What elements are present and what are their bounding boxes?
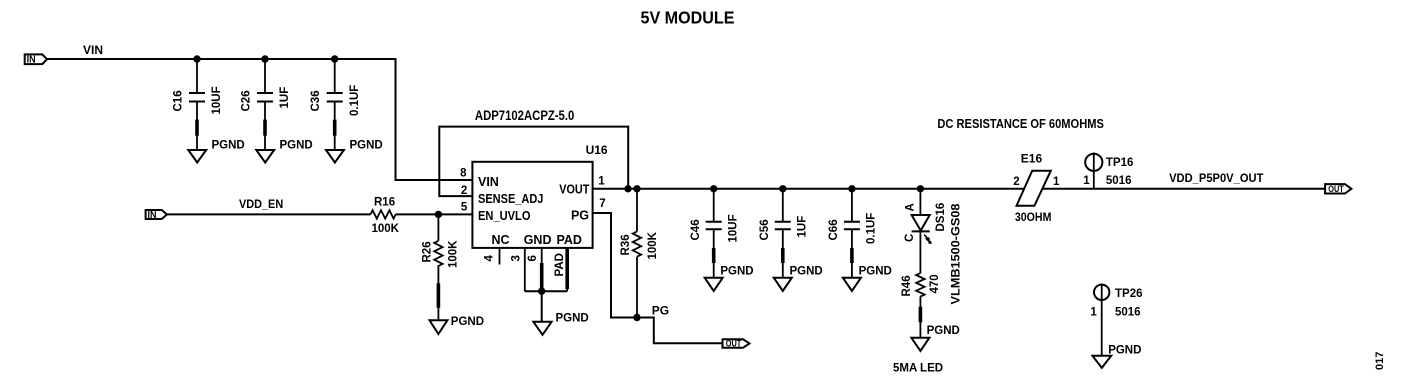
svg-text:1: 1 [1083, 175, 1090, 187]
ground PGND C16 [188, 140, 244, 163]
svg-text:PGND: PGND [1108, 345, 1141, 357]
svg-text:PG: PG [652, 304, 669, 318]
svg-text:5V MODULE: 5V MODULE [641, 8, 735, 28]
svg-text:5MA LED: 5MA LED [893, 363, 943, 375]
test point TP26 [1090, 284, 1142, 356]
capacitor C36 [310, 59, 361, 150]
svg-text:100K: 100K [372, 223, 400, 235]
svg-text:TP16: TP16 [1106, 157, 1134, 169]
svg-text:7: 7 [599, 198, 605, 210]
wire GND/PAD join [525, 291, 567, 322]
svg-text:IN: IN [27, 55, 36, 66]
svg-text:NC: NC [492, 233, 510, 247]
ground PGND C26 [256, 140, 312, 163]
svg-text:C56: C56 [759, 219, 771, 240]
svg-text:VOUT: VOUT [559, 182, 589, 196]
capacitor C56 [759, 189, 809, 278]
svg-text:10UF: 10UF [728, 214, 740, 242]
svg-text:017: 017 [1374, 352, 1386, 370]
svg-text:8: 8 [460, 167, 467, 179]
node VIN-C26 [261, 55, 268, 62]
svg-text:6: 6 [527, 255, 539, 261]
ground PGND C66 [843, 266, 892, 292]
connector OUT (VDD_P5P0V_OUT) [1325, 184, 1351, 194]
capacitor C16 [173, 59, 224, 150]
wire VIN rail [47, 59, 472, 180]
pin 6 stub (GND) [527, 248, 542, 291]
node VIN-C36 [331, 55, 338, 62]
svg-text:C16: C16 [173, 90, 185, 111]
node VOUT-C66 [848, 185, 855, 192]
svg-text:C36: C36 [310, 90, 322, 111]
wire PG route from pin7 [593, 213, 637, 318]
svg-text:R16: R16 [374, 197, 395, 209]
svg-text:DC RESISTANCE OF 60MOHMS: DC RESISTANCE OF 60MOHMS [937, 116, 1104, 131]
connector IN (VIN) [25, 54, 47, 65]
connector OUT (PG) [723, 338, 750, 348]
ground PGND U16 [533, 313, 588, 335]
ground PGND R26 [430, 316, 485, 334]
svg-text:VDD_P5P0V_OUT: VDD_P5P0V_OUT [1169, 171, 1264, 185]
svg-text:C66: C66 [828, 219, 840, 240]
resistor R16 [371, 197, 400, 236]
ground PGND TP26 [1093, 345, 1142, 368]
node VOUT-loop [624, 185, 631, 192]
svg-text:PGND: PGND [280, 140, 313, 152]
svg-text:4: 4 [484, 255, 496, 262]
svg-text:1: 1 [598, 175, 605, 187]
svg-text:VLMB1500-GS08: VLMB1500-GS08 [951, 203, 963, 305]
wire SENSE_ADJ to VOUT loop [439, 127, 628, 197]
svg-text:3: 3 [511, 255, 523, 261]
svg-text:PGND: PGND [350, 140, 383, 152]
svg-text:PAD: PAD [557, 233, 582, 247]
svg-text:R36: R36 [620, 234, 632, 255]
svg-text:2: 2 [1013, 176, 1019, 188]
svg-text:OUT: OUT [726, 338, 742, 348]
node VOUT-DS16 [917, 185, 924, 192]
svg-text:1: 1 [1090, 307, 1097, 319]
svg-text:5016: 5016 [1106, 175, 1132, 187]
pin PAD stub [554, 248, 567, 291]
node GND-PAD [538, 288, 545, 295]
node PG [633, 314, 640, 321]
ground PGND DS16 [911, 325, 959, 351]
LED DS16 [904, 189, 963, 305]
capacitor C46 [690, 189, 740, 278]
svg-text:SENSE_ADJ: SENSE_ADJ [478, 192, 543, 206]
svg-text:DS16: DS16 [935, 203, 947, 232]
svg-text:U16: U16 [586, 143, 608, 157]
svg-text:R46: R46 [901, 275, 913, 296]
ground PGND C36 [326, 140, 383, 163]
wire VOUT rail [593, 188, 1024, 190]
svg-text:E16: E16 [1021, 152, 1043, 166]
wire PG to OUT [637, 318, 723, 344]
svg-text:100K: 100K [647, 231, 659, 259]
svg-text:VIN: VIN [478, 175, 499, 189]
node VOUT-C56 [779, 185, 786, 192]
node R16-R26-EN [435, 211, 442, 218]
capacitor C26 [241, 59, 292, 150]
svg-text:OUT: OUT [1328, 184, 1344, 194]
svg-text:PGND: PGND [556, 313, 589, 325]
test point TP16 [1083, 153, 1133, 188]
svg-text:TP26: TP26 [1115, 288, 1143, 300]
svg-text:VDD_EN: VDD_EN [239, 197, 283, 211]
svg-text:PGND: PGND [720, 266, 753, 278]
node VIN-C16 [193, 55, 200, 62]
svg-text:470: 470 [929, 274, 941, 293]
wire E16 to OUT [1043, 188, 1326, 190]
svg-text:A: A [905, 203, 917, 211]
svg-text:R26: R26 [422, 241, 434, 262]
svg-text:1UF: 1UF [279, 87, 291, 109]
svg-text:VIN: VIN [83, 43, 103, 57]
svg-text:C: C [904, 234, 916, 242]
svg-text:0.1UF: 0.1UF [349, 85, 361, 116]
svg-text:C26: C26 [241, 90, 253, 111]
resistor R26 [422, 214, 460, 320]
svg-text:5016: 5016 [1115, 307, 1141, 319]
svg-text:5: 5 [461, 201, 468, 213]
svg-text:C46: C46 [690, 219, 702, 240]
resistor R46 [901, 273, 941, 338]
resistor R36 [620, 189, 659, 318]
svg-text:100K: 100K [448, 240, 460, 268]
pin 3 stub (GND) [511, 248, 525, 291]
svg-text:IN: IN [148, 210, 157, 221]
svg-text:10UF: 10UF [211, 86, 223, 114]
svg-text:PGND: PGND [859, 266, 892, 278]
capacitor C66 [828, 189, 878, 278]
svg-text:0.1UF: 0.1UF [866, 213, 878, 244]
regulator U16 ADP7102ACPZ-5.0 [472, 162, 592, 248]
svg-text:1: 1 [1053, 176, 1060, 188]
svg-text:GND: GND [524, 233, 552, 247]
svg-text:PG: PG [571, 209, 589, 223]
ground PGND C46 [705, 266, 754, 292]
svg-text:PGND: PGND [790, 266, 823, 278]
svg-text:ADP7102ACPZ-5.0: ADP7102ACPZ-5.0 [475, 108, 574, 123]
svg-text:PGND: PGND [927, 325, 960, 337]
connector IN (VDD_EN) [146, 210, 167, 221]
ground PGND C56 [774, 266, 823, 292]
ferrite bead E16 [1013, 152, 1060, 225]
svg-text:PGND: PGND [451, 316, 484, 328]
svg-text:EN_UVLO: EN_UVLO [478, 209, 531, 223]
svg-text:PGND: PGND [212, 140, 245, 152]
node VOUT-R36 [633, 185, 640, 192]
svg-text:1UF: 1UF [797, 216, 809, 238]
svg-text:30OHM: 30OHM [1015, 210, 1052, 224]
wire VDD_EN [167, 213, 473, 215]
svg-text:PAD: PAD [554, 253, 566, 276]
node VOUT-C46 [710, 185, 717, 192]
pin 4 stub (NC) [484, 248, 500, 265]
